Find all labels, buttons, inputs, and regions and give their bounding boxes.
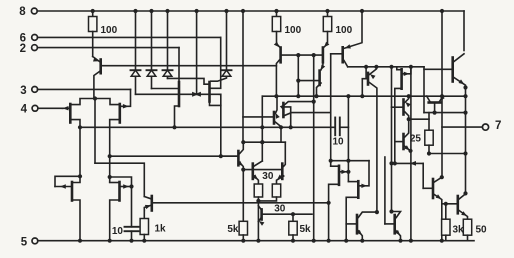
wire y160.7 strap: [331, 159, 369, 163]
pin 4: [21, 104, 63, 116]
wire J5 source: [72, 200, 82, 243]
svg-text:100: 100: [285, 25, 302, 36]
label 1k: [155, 224, 167, 235]
transistor Q12: [252, 161, 262, 184]
svg-text:7: 7: [495, 120, 501, 132]
svg-text:25: 25: [410, 134, 422, 145]
transistor Q13: [277, 142, 286, 184]
wire J5 drain: [72, 127, 80, 182]
resistor R2 1k: [140, 219, 148, 235]
wire y153.5 line: [429, 151, 468, 155]
transistor Qtop PNP: [427, 96, 445, 113]
gate J1: [63, 106, 70, 111]
wire x465.5: [463, 96, 467, 195]
wire x298 drop: [296, 55, 300, 98]
junction J8 source rail: [344, 239, 348, 243]
jfet J1: [69, 104, 72, 123]
jfet J6: [118, 182, 121, 201]
wire rail drop x196.6: [196, 11, 198, 94]
wire bus y96 ext: [427, 85, 468, 98]
resistor R5 5k: [239, 221, 247, 235]
jfet J7: [327, 166, 348, 243]
wire x442 upper: [441, 11, 443, 178]
wire D1 gate line: [136, 93, 220, 95]
diode D3: [163, 11, 173, 78]
wire 25 top: [428, 113, 430, 131]
wire x391.5 drop: [389, 67, 393, 214]
transistor Q9: [458, 194, 468, 219]
wire J3 source: [172, 106, 179, 129]
transistor QB: [385, 212, 403, 243]
wire 30s join: [256, 197, 276, 243]
svg-text:10: 10: [332, 137, 344, 148]
wire J6 drain: [110, 182, 120, 184]
svg-text:5: 5: [21, 236, 28, 248]
capacitor C2 10: [332, 118, 344, 148]
transistor Q5: [280, 102, 331, 130]
wire cap stub: [131, 231, 133, 241]
jfet J5: [71, 182, 74, 201]
transistor Q1 PNP: [93, 57, 101, 99]
wire 5kL bottom: [241, 235, 245, 243]
svg-text:50: 50: [476, 225, 488, 236]
transistor Q4: [243, 96, 283, 129]
wire x423.2 drop: [422, 163, 424, 188]
resistor R4 30: [272, 184, 280, 197]
wire 1k top: [143, 211, 145, 219]
transistor Q2 PNP: [274, 32, 322, 97]
svg-text:100: 100: [336, 25, 353, 36]
resistor R9 25: [425, 130, 433, 145]
wire x348.4: [346, 96, 350, 181]
wire x131.5 down: [129, 187, 133, 243]
wire pin6 drop: [210, 37, 221, 88]
junction q8 base: [360, 94, 364, 98]
diode D1: [131, 11, 141, 94]
wire D2 line: [152, 88, 178, 90]
wire x313.7 drop: [312, 55, 316, 243]
transistor Tb: [395, 133, 413, 153]
wire mirror V x262.3: [260, 96, 264, 161]
gate J5: [55, 174, 82, 189]
wire input pair top: [70, 96, 120, 104]
resistor R8 100: [323, 17, 331, 32]
wire D3 line: [168, 78, 209, 84]
pin 3: [20, 85, 130, 97]
wire 5kR bottom: [291, 235, 295, 243]
label R1 100: [101, 25, 118, 36]
gate arrows J3 J4: [192, 92, 201, 97]
wire bus y96.2: [262, 94, 426, 98]
pin 2: [20, 43, 179, 55]
junction dots q2: [274, 53, 316, 98]
svg-text:8: 8: [19, 6, 26, 18]
wire bottom rail V-: [38, 240, 474, 242]
svg-text:2: 2: [20, 43, 26, 55]
label 30 upper: [262, 171, 274, 182]
junction q3b: [314, 94, 318, 98]
resistor R3 30: [254, 184, 262, 197]
wire gate drop x220.8: [220, 94, 237, 156]
label 25: [410, 134, 422, 145]
wire R1 top: [92, 11, 94, 17]
transistor Q3 PNP: [323, 32, 330, 63]
wire 25 bottom: [427, 145, 431, 155]
wire bus y127.3: [80, 126, 335, 128]
wire R3 top: [327, 11, 329, 17]
jfet J3: [178, 82, 181, 106]
svg-text:3k: 3k: [453, 225, 465, 236]
wire y177 link: [110, 177, 134, 189]
wire strap y163.4: [389, 161, 423, 166]
resistor R10 3k: [442, 219, 450, 235]
transistor Qmr: [423, 175, 444, 243]
pin 5: [21, 236, 38, 248]
wire x384.9: [384, 157, 386, 224]
wire 50 bottom: [467, 235, 469, 241]
transistor Q3b cascode: [298, 62, 325, 96]
wire rail drop x243: [241, 11, 245, 144]
wire x410.9 drop: [409, 67, 413, 243]
junctions top rail: [91, 9, 445, 13]
wire y156 line: [110, 154, 237, 158]
svg-text:30: 30: [274, 203, 286, 214]
wire J1 source: [70, 120, 82, 130]
svg-text:4: 4: [21, 104, 28, 116]
svg-text:3: 3: [20, 85, 26, 97]
wire q9 base line: [442, 202, 457, 206]
transistor Qbig: [424, 54, 466, 96]
wire 3k bottom: [445, 235, 447, 241]
wire corner x424: [423, 67, 425, 113]
capacitor C1 10: [112, 226, 139, 237]
pin 8: [19, 6, 37, 18]
label 100 right: [336, 25, 353, 36]
wire rail right corner: [463, 11, 465, 51]
wire J7 drain up: [330, 161, 332, 167]
label 50: [476, 225, 488, 236]
svg-text:10: 10: [112, 226, 124, 237]
diode D2: [147, 11, 157, 89]
wire y112.6 line: [424, 111, 468, 115]
wire y119 stub: [409, 118, 429, 120]
wire R2 top: [276, 11, 278, 17]
label 30 lower: [274, 203, 286, 214]
transistor Q7 PNP: [331, 11, 362, 67]
svg-text:5k: 5k: [227, 224, 239, 235]
diode D4: [211, 11, 232, 81]
wire q4c down: [280, 127, 282, 142]
label 100 mid: [285, 25, 302, 36]
transistor Ta: [392, 96, 411, 132]
wire y163 link: [95, 163, 144, 196]
pin 6: [20, 33, 221, 45]
wire 3k top: [445, 204, 447, 219]
transistor QA: [346, 210, 379, 243]
wire cap right: [340, 126, 349, 128]
label 3k: [453, 225, 465, 236]
resistor R6 5k: [289, 221, 297, 235]
wire top rail V+: [37, 10, 464, 12]
wire Q1 base bus: [102, 65, 276, 67]
transistor Q10 PNP: [144, 196, 328, 211]
transistor Q8: [362, 67, 377, 212]
wire pin2 drop: [178, 48, 180, 82]
wire 5kL top: [242, 170, 244, 222]
svg-text:100: 100: [101, 25, 118, 36]
wire J2 source: [110, 120, 120, 128]
pin 7 output: [442, 120, 501, 132]
wire base bus y169.6: [243, 169, 281, 171]
wire x330.7: [329, 54, 333, 163]
jfet J8: [346, 161, 369, 241]
wire J4 source: [210, 102, 221, 106]
wire tail drop x95: [94, 99, 96, 164]
transistor Q11 diode: [237, 145, 245, 172]
gate J6: [121, 184, 132, 189]
jfet J4: [208, 82, 211, 102]
wire 1k bottom: [142, 235, 146, 243]
svg-text:30: 30: [262, 171, 274, 182]
wire y66.8 line: [348, 65, 424, 69]
resistor R11 50: [463, 219, 471, 235]
wire J6 source: [108, 200, 120, 243]
label 5k right: [300, 224, 312, 235]
wire mirror top H: [243, 140, 285, 144]
resistor R7 100: [272, 17, 280, 32]
svg-text:5k: 5k: [300, 224, 312, 235]
transistor Q14: [258, 206, 312, 226]
gate J2: [121, 89, 131, 108]
jfet J2: [119, 104, 122, 123]
jfet J9: [395, 67, 411, 164]
wire 5kR top: [291, 212, 295, 221]
wire R1 bottom: [92, 32, 94, 57]
label 5k left: [227, 224, 239, 235]
wire x109.7: [108, 127, 112, 182]
svg-text:1k: 1k: [155, 224, 167, 235]
resistor R1 100: [89, 17, 97, 32]
